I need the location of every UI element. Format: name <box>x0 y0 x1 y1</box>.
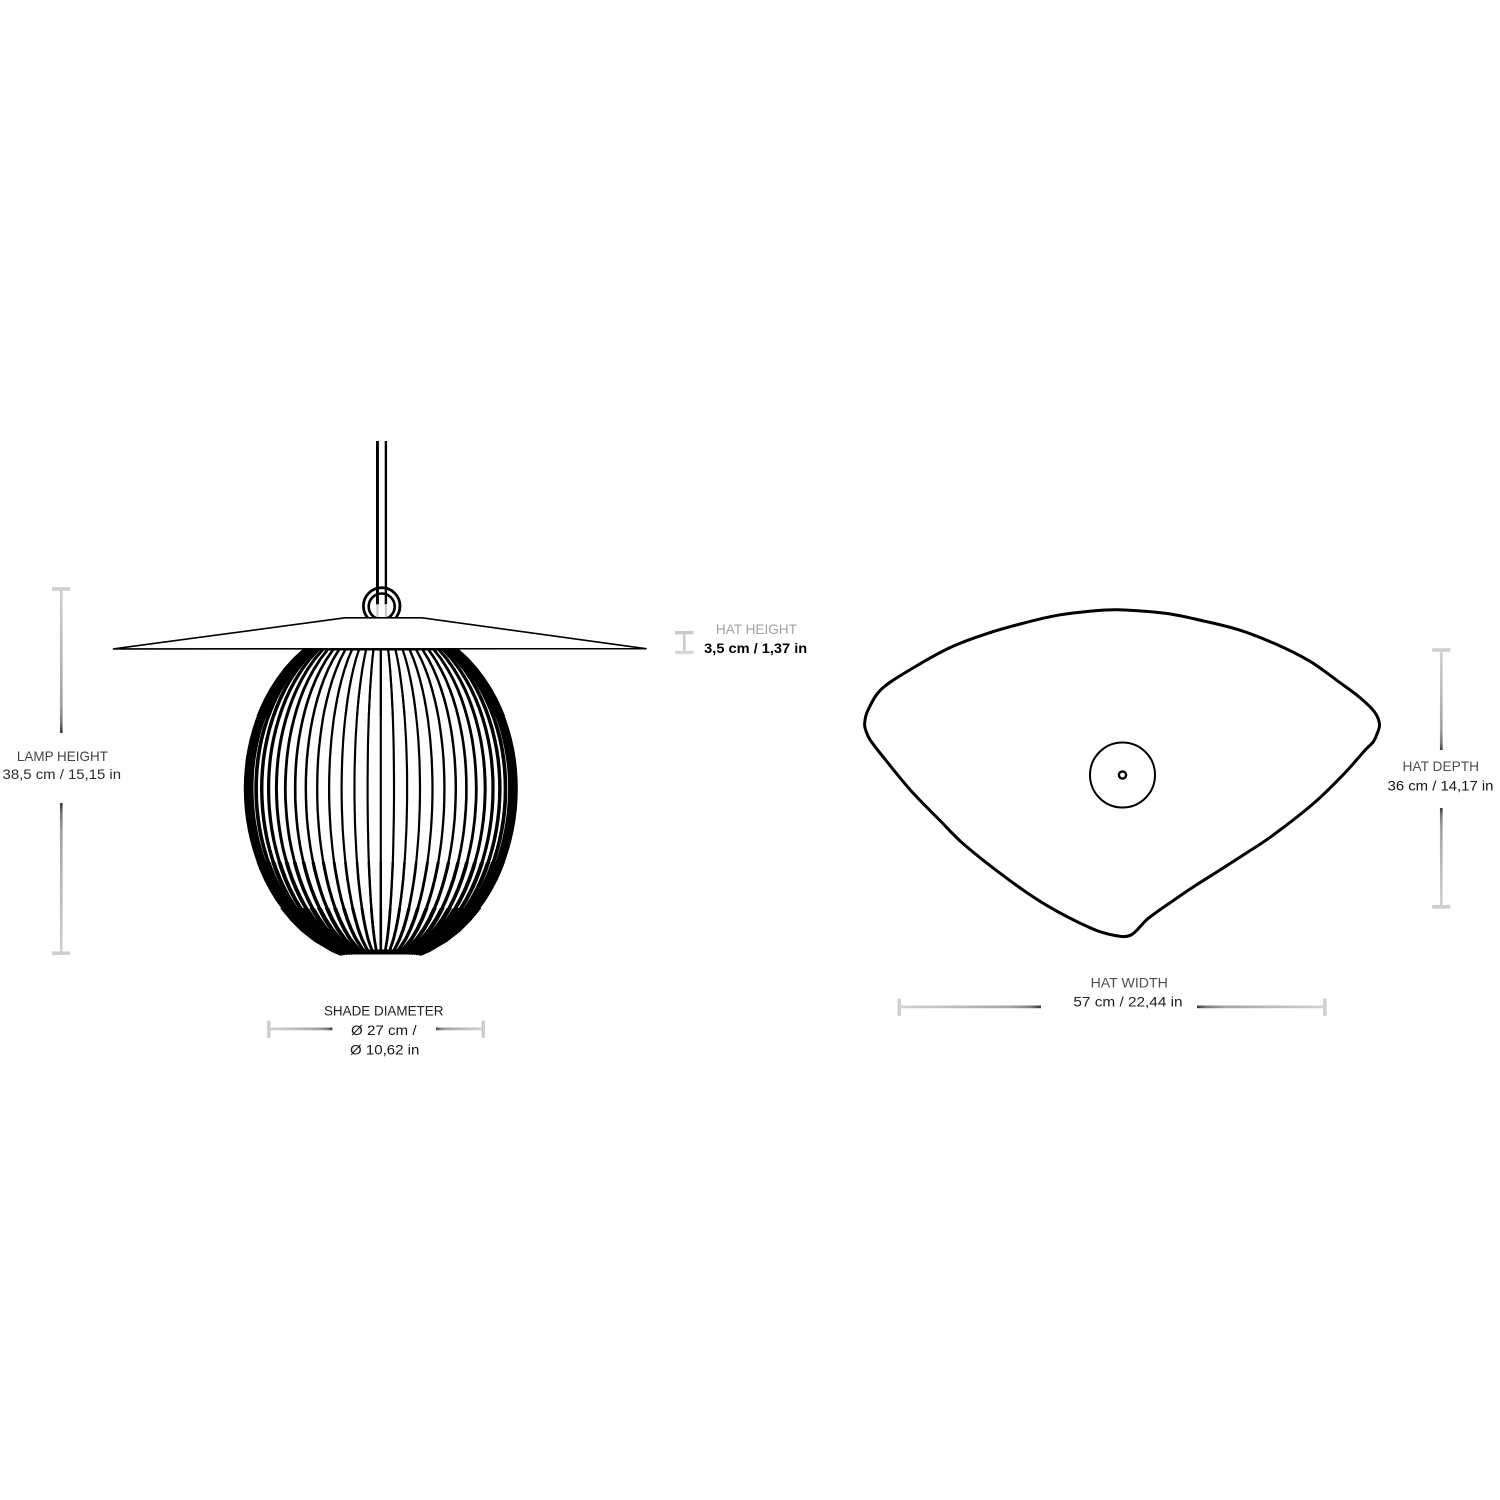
svg-text:SHADE DIAMETER: SHADE DIAMETER <box>324 1002 444 1018</box>
svg-text:HAT WIDTH: HAT WIDTH <box>1091 974 1168 990</box>
svg-text:38,5 cm / 15,15 in: 38,5 cm / 15,15 in <box>3 766 122 782</box>
svg-text:HAT HEIGHT: HAT HEIGHT <box>716 621 797 637</box>
svg-text:57 cm / 22,44 in: 57 cm / 22,44 in <box>1073 993 1182 1009</box>
svg-text:Ø 10,62 in: Ø 10,62 in <box>350 1041 419 1057</box>
svg-text:3,5 cm / 1,37 in: 3,5 cm / 1,37 in <box>704 641 807 656</box>
svg-text:LAMP HEIGHT: LAMP HEIGHT <box>17 748 108 764</box>
svg-text:HAT DEPTH: HAT DEPTH <box>1403 758 1480 774</box>
svg-text:36 cm / 14,17 in: 36 cm / 14,17 in <box>1388 778 1494 794</box>
svg-text:Ø 27 cm /: Ø 27 cm / <box>351 1022 417 1038</box>
